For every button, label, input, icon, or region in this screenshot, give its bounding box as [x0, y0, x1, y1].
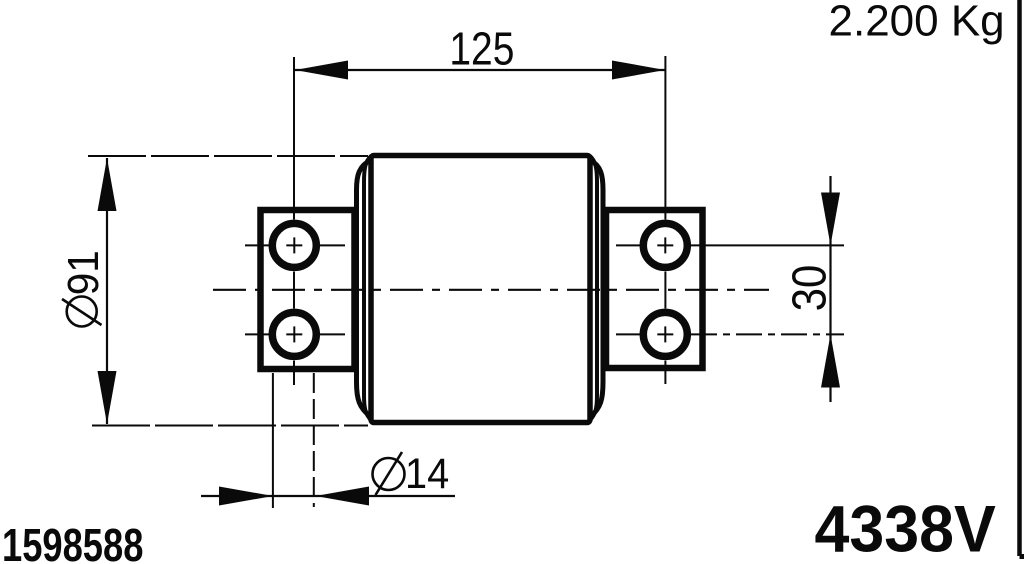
diameter 14 dimension line: [201, 495, 455, 497]
right bracket: [606, 210, 703, 368]
left upper hole: [272, 223, 316, 267]
right bushing end cap inner line: [590, 156, 597, 420]
right upper hole: [643, 223, 687, 267]
svg-text:1598588: 1598588: [2, 519, 143, 564]
svg-text:125: 125: [449, 23, 514, 75]
right border foot: [1020, 554, 1024, 559]
diameter 91 dimension line: [106, 158, 108, 424]
left bracket: [261, 210, 355, 369]
diameter 14 right arrowhead: [316, 487, 370, 506]
right border line: [1017, 0, 1022, 556]
left lower hole cross: [286, 326, 302, 342]
right upper hole cross: [657, 237, 673, 253]
30 top arrowhead: [821, 193, 840, 246]
125 right arrowhead: [612, 61, 665, 80]
left lower hole: [272, 312, 316, 356]
main horizontal centerline: [213, 289, 769, 291]
diameter 14 left extension line: [272, 373, 274, 508]
diameter 91 symbol circle: [67, 297, 97, 327]
right hole column centerline / 125 extension line: [664, 56, 666, 384]
diameter 14 symbol slash: [376, 452, 403, 495]
right lower hole horizontal centerline / 30 extension line: [616, 333, 844, 335]
diameter 91 top extension line: [88, 155, 368, 157]
main bushing body: [371, 156, 590, 423]
left bushing end cap inner line: [364, 156, 371, 420]
diameter 91 top arrowhead: [98, 158, 117, 211]
left upper hole horizontal centerline: [245, 244, 345, 246]
30 dimension line: [829, 176, 831, 402]
right lower hole: [643, 312, 687, 356]
svg-text:4338V: 4338V: [815, 492, 996, 564]
svg-text:30: 30: [782, 265, 837, 311]
left hole column centerline / 125 extension line: [293, 57, 295, 385]
right upper hole horizontal centerline / 30 extension line: [616, 244, 844, 246]
diameter 14 right extension line: [313, 373, 315, 507]
svg-text:2.200 Kg: 2.200 Kg: [829, 0, 1005, 46]
diameter 91 bottom arrowhead: [98, 371, 117, 424]
125 dimension line: [295, 69, 665, 71]
right bushing end cap outer line: [590, 160, 603, 417]
30 bottom arrowhead: [821, 334, 840, 387]
diameter 91 bottom extension line: [92, 425, 368, 427]
right lower hole cross: [657, 326, 673, 342]
diameter 14 symbol circle: [373, 458, 405, 490]
125 left arrowhead: [295, 61, 348, 80]
diameter 14 left arrowhead: [219, 487, 273, 506]
svg-text:91: 91: [59, 250, 108, 295]
left bushing end cap outer line: [357, 160, 372, 417]
diameter 91 symbol slash: [62, 299, 102, 325]
left lower hole horizontal centerline: [245, 333, 345, 335]
svg-text:14: 14: [405, 450, 449, 498]
left upper hole cross: [286, 237, 302, 253]
